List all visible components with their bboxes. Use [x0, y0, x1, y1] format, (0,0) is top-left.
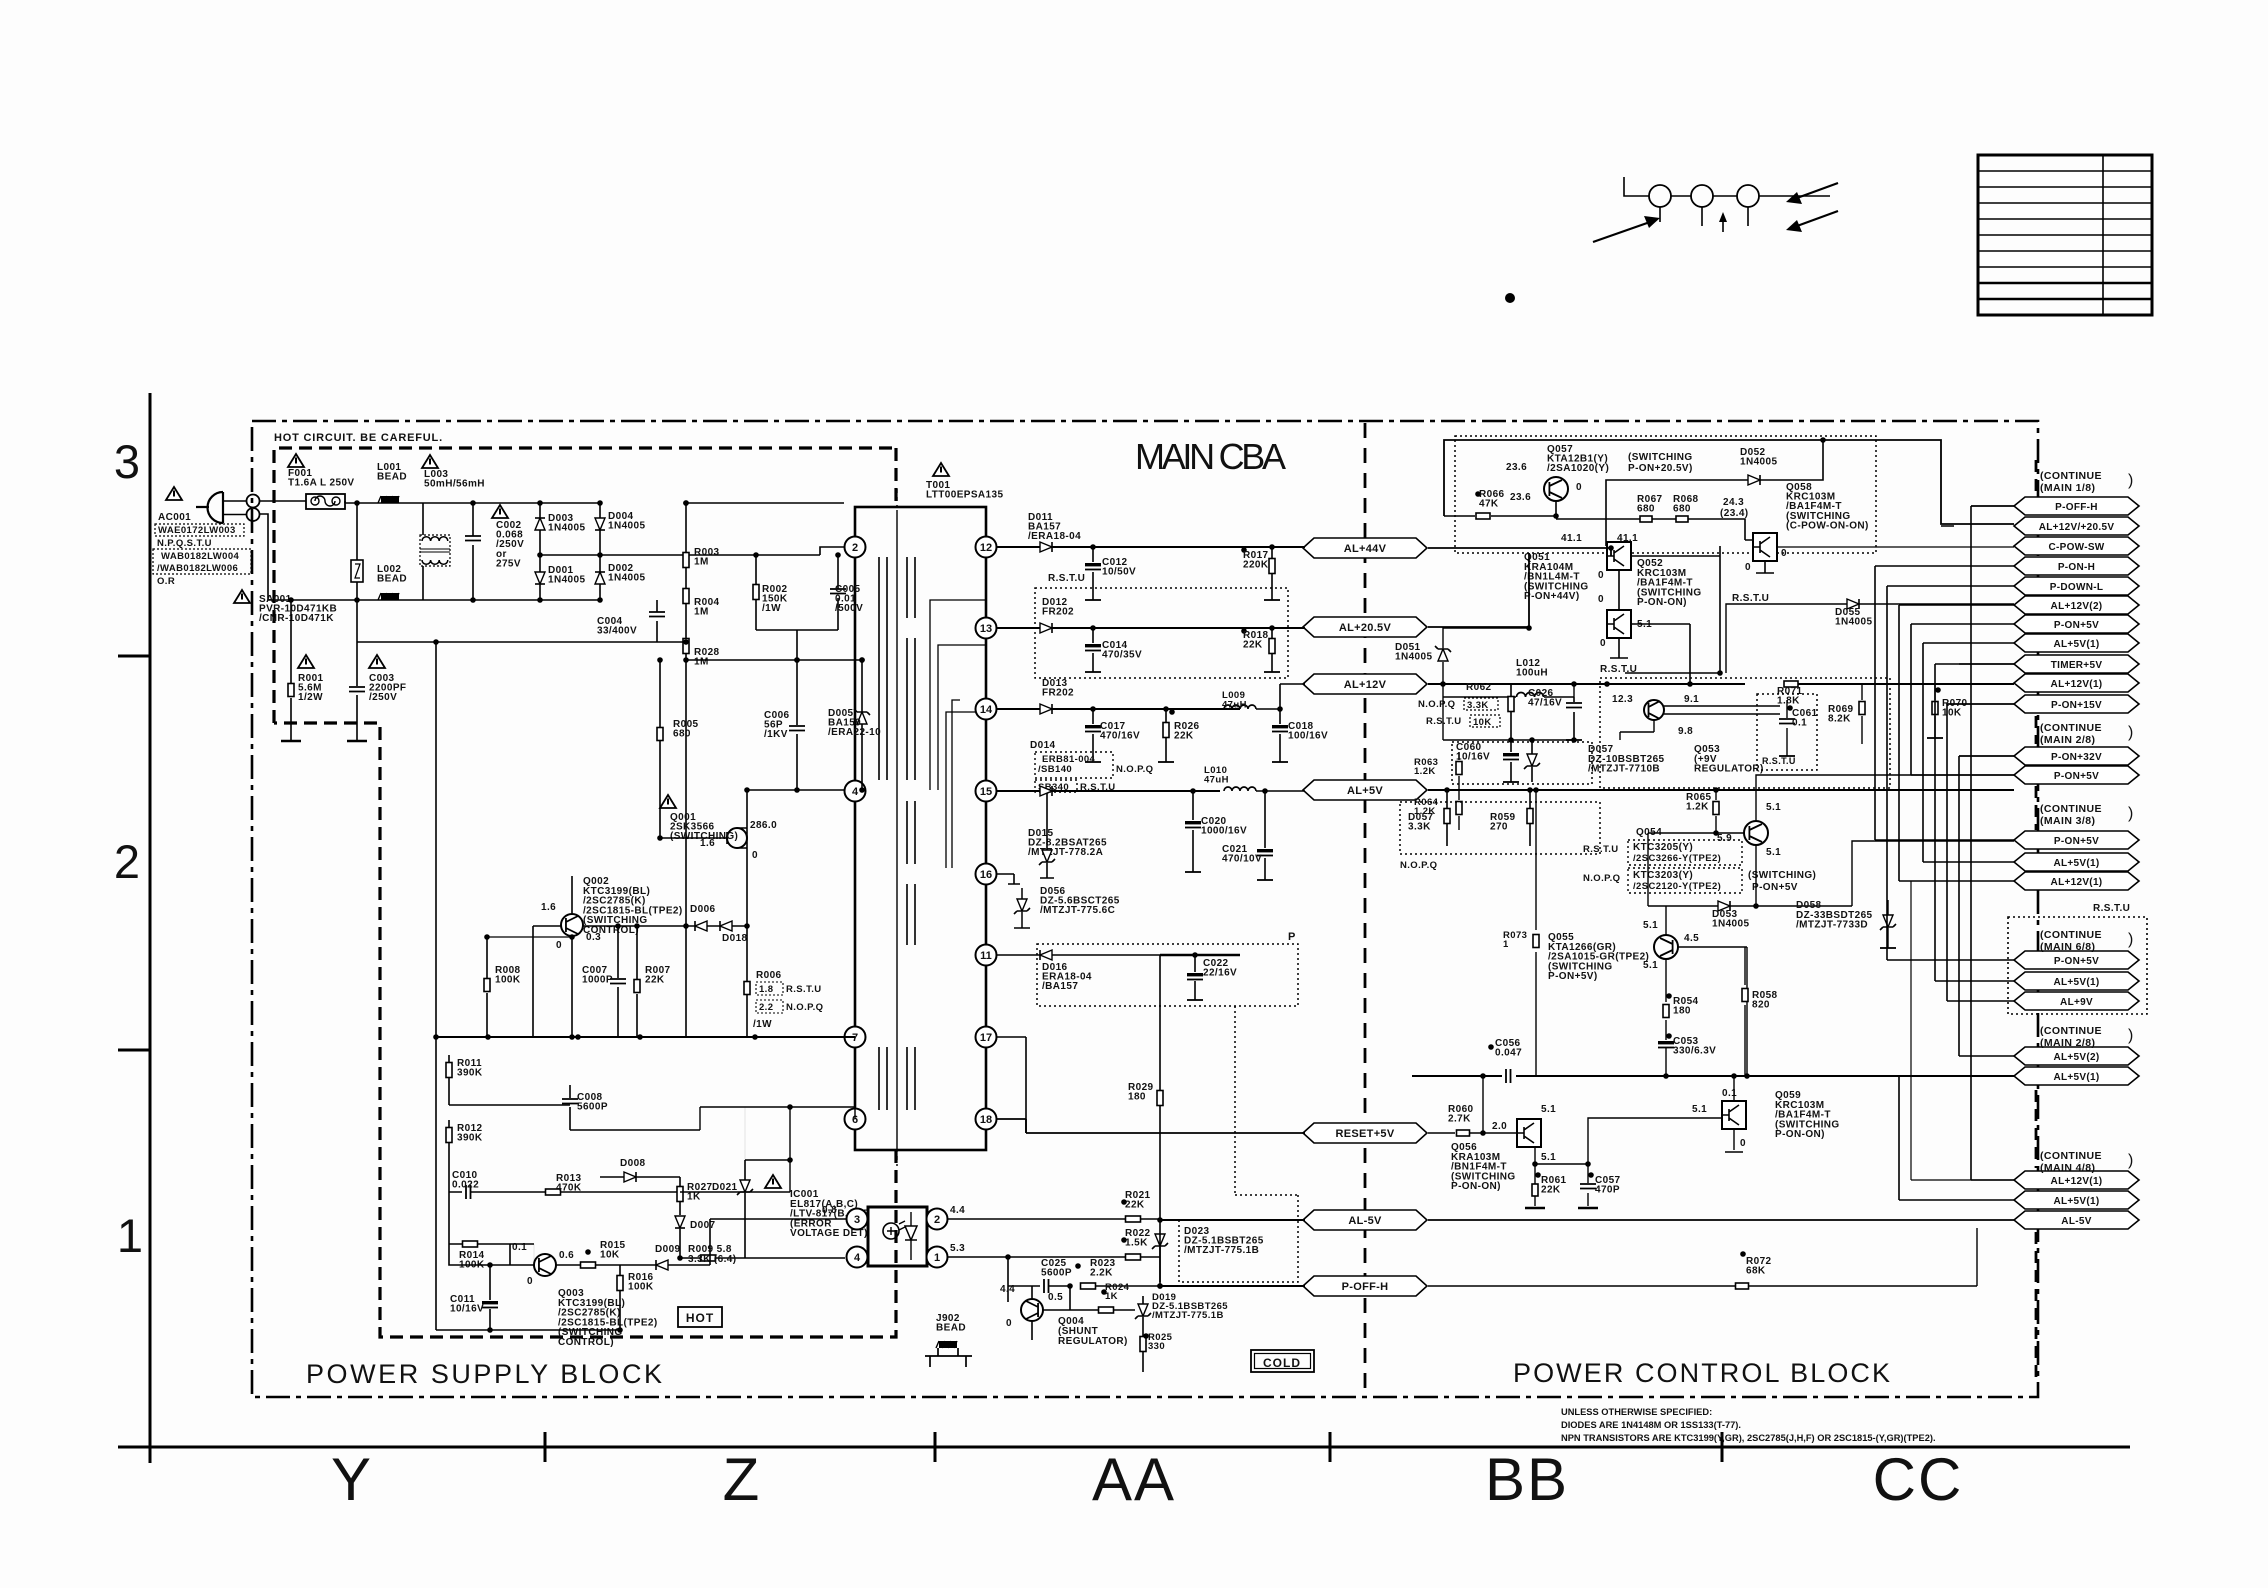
svg-text:820: 820: [1752, 1000, 1770, 1011]
svg-text:2: 2: [934, 1214, 940, 1226]
svg-text:0: 0: [1576, 482, 1582, 493]
wire AL5V1 1200 lead: [1899, 1076, 2014, 1200]
svg-text:/MTZJT-7733D: /MTZJT-7733D: [1796, 920, 1868, 931]
svg-text:/2SC3266-Y(TPE2): /2SC3266-Y(TPE2): [1633, 853, 1721, 864]
svg-text:P-ON+5V: P-ON+5V: [2054, 620, 2099, 631]
COLD label box: [1251, 1350, 1314, 1372]
svg-text:5600P: 5600P: [1041, 1268, 1072, 1279]
net flag RESET+5V mid y1133: [1303, 1123, 1427, 1143]
svg-text:AL+5V: AL+5V: [1347, 785, 1383, 797]
svg-text:KTC3203(Y): KTC3203(Y): [1633, 870, 1693, 881]
svg-text:0: 0: [1745, 562, 1751, 573]
transformer pin 14: [976, 699, 997, 720]
svg-text:AL+5V(1): AL+5V(1): [2053, 977, 2099, 988]
svg-text:(SWITCHING): (SWITCHING): [1748, 870, 1816, 881]
svg-text:AL+12V(1): AL+12V(1): [2051, 877, 2103, 888]
border frame bottom horizontal line: [118, 1446, 2130, 1449]
net flag AL-5V mid y1220: [1303, 1210, 1427, 1230]
svg-text:CC: CC: [1873, 1446, 1964, 1513]
svg-text:/2SA1020(Y): /2SA1020(Y): [1547, 463, 1609, 474]
dash-dot stub below AL-5V: [2035, 1232, 2038, 1384]
svg-text:8.2K: 8.2K: [1828, 714, 1851, 725]
capacitor C017: [1092, 709, 1094, 762]
svg-text:41.1: 41.1: [1561, 533, 1582, 544]
diode D016: [997, 955, 1160, 1000]
resistor R070: [1934, 684, 1936, 738]
svg-text:22/16V: 22/16V: [1203, 968, 1237, 979]
svg-text:R.S.T.U: R.S.T.U: [1762, 756, 1796, 766]
svg-text:4: 4: [852, 786, 859, 798]
wire pin7 bus: [440, 1036, 855, 1038]
svg-text:BB: BB: [1485, 1446, 1569, 1513]
svg-text:41.1: 41.1: [1617, 533, 1638, 544]
transformer pin 13: [976, 618, 997, 639]
svg-text:3.3K: 3.3K: [1408, 822, 1431, 833]
svg-text:47/16V: 47/16V: [1528, 698, 1562, 709]
svg-text:0: 0: [527, 1276, 533, 1287]
diode D009: [620, 1264, 710, 1266]
resistor R004: [683, 589, 689, 604]
inductor L009: [1224, 705, 1256, 709]
resistor R023: [1081, 1283, 1096, 1289]
frame bottom tick Z/AA: [934, 1432, 937, 1462]
transformer pin 15: [976, 781, 997, 802]
svg-text:C-POW-SW: C-POW-SW: [2048, 542, 2104, 553]
svg-text:5.1: 5.1: [1766, 847, 1781, 858]
svg-text:47uH: 47uH: [1222, 700, 1247, 711]
svg-text:AL+5V(1): AL+5V(1): [2053, 639, 2099, 650]
zener D057b: [1527, 754, 1537, 766]
dotted box continue main 6/8: [2008, 917, 2147, 1014]
wire hot gnd bus y1037: [436, 1036, 855, 1038]
zener D058: [1883, 915, 1893, 927]
resistor R005: [659, 660, 661, 838]
svg-text:/ERA22-10: /ERA22-10: [828, 727, 881, 738]
resistor R054: [1665, 1000, 1667, 1040]
svg-text:5.9: 5.9: [1717, 833, 1732, 844]
svg-text:): ): [2128, 1027, 2133, 1044]
resistor R016: [619, 1265, 621, 1330]
frame bottom tick BB/CC: [1721, 1432, 1724, 1462]
svg-text:/2SC2120-Y(TPE2): /2SC2120-Y(TPE2): [1633, 881, 1721, 892]
frame bottom tick AA/BB: [1329, 1432, 1332, 1462]
wire q003 bottom bus: [436, 1329, 620, 1331]
net flag AL+5V mid y790: [1303, 780, 1427, 800]
capacitor C020: [1192, 791, 1194, 872]
transformer pin 12: [976, 537, 997, 558]
svg-text:0: 0: [556, 940, 562, 951]
dotted box D057-R059: [1400, 802, 1600, 854]
svg-text:0.1: 0.1: [1792, 718, 1807, 729]
svg-text:P-ON+15V: P-ON+15V: [2051, 700, 2102, 711]
svg-text:P-OFF-H: P-OFF-H: [2055, 502, 2098, 513]
svg-text:AL+12V(2): AL+12V(2): [2051, 601, 2103, 612]
resistor R026: [1165, 709, 1167, 762]
svg-text:10K: 10K: [600, 1250, 620, 1261]
svg-text:22K: 22K: [1174, 731, 1194, 742]
svg-text:D006: D006: [690, 904, 716, 915]
transistor Q003: [534, 1254, 556, 1276]
resistor R011: [448, 1055, 450, 1105]
diode D051: [1438, 649, 1448, 661]
capacitor C010: [449, 1191, 520, 1193]
wire pin6 row: [570, 1107, 855, 1130]
svg-text:15: 15: [980, 786, 992, 798]
resistor R071: [1784, 681, 1798, 687]
capacitor C021: [1264, 791, 1266, 880]
capacitor C018: [1279, 709, 1281, 762]
svg-text:AL+20.5V: AL+20.5V: [1339, 622, 1392, 634]
svg-text:AL+9V: AL+9V: [2060, 997, 2093, 1008]
svg-text:R.S.T.U: R.S.T.U: [1583, 844, 1619, 855]
net flag AL+5V(1) y1076: [2014, 1067, 2139, 1085]
svg-text:1M: 1M: [694, 607, 709, 618]
resistor R068: [1688, 519, 1745, 540]
dash-dot stub above P-OFF-H: [2035, 460, 2038, 496]
svg-text:/1W: /1W: [753, 1019, 772, 1030]
svg-text:1M: 1M: [694, 657, 709, 668]
svg-text:/WAB0182LW006: /WAB0182LW006: [157, 563, 238, 574]
svg-text:1.6: 1.6: [700, 838, 715, 849]
wire D055 AL+12V(2): [1726, 604, 2014, 673]
svg-text:5600P: 5600P: [577, 1102, 608, 1113]
svg-text:N.O.P.Q: N.O.P.Q: [1418, 699, 1455, 710]
svg-text:P-ON-ON): P-ON-ON): [1451, 1181, 1501, 1192]
svg-text:1.8K: 1.8K: [1777, 696, 1800, 707]
svg-text:0: 0: [752, 850, 758, 861]
wire mid rail to pin2: [686, 547, 844, 555]
svg-text:10/16V: 10/16V: [450, 1304, 484, 1315]
net flag P-ON+5V y624: [2014, 615, 2139, 633]
capacitor C006: [796, 660, 798, 790]
dash-dot stub above AL+12V(1) 1180: [2035, 1090, 2038, 1168]
svg-text:P-ON+5V: P-ON+5V: [2054, 836, 2099, 847]
svg-text:/MTZJT-775.6C: /MTZJT-775.6C: [1040, 905, 1115, 916]
svg-text:POWER SUPPLY BLOCK: POWER SUPPLY BLOCK: [306, 1359, 668, 1389]
svg-text:1N4005: 1N4005: [548, 523, 585, 534]
net flag AL+12V mid y684: [1303, 674, 1427, 694]
svg-text:AL+5V(1): AL+5V(1): [2053, 1072, 2099, 1083]
net flag AL+12V(1) y1180: [2014, 1171, 2139, 1189]
diode D002: [595, 572, 605, 584]
svg-text:R.S.T.U: R.S.T.U: [786, 984, 822, 995]
diode D001: [535, 572, 545, 584]
fuse F001: [306, 494, 345, 509]
svg-text:P-ON-ON): P-ON-ON): [1637, 597, 1687, 608]
svg-text:16: 16: [980, 869, 992, 881]
svg-text:BEAD: BEAD: [936, 1323, 966, 1334]
svg-text:4: 4: [854, 1252, 861, 1264]
svg-text:HOT CIRCUIT. BE CAREFUL.: HOT CIRCUIT. BE CAREFUL.: [274, 432, 443, 444]
net flag AL+5V(2) y1056: [2014, 1047, 2139, 1065]
wire r013 r014 node: [533, 1244, 535, 1265]
svg-text:12.3: 12.3: [1612, 694, 1633, 705]
svg-text:(MAIN 6/8): (MAIN 6/8): [2040, 941, 2095, 953]
resistor R017: [1271, 547, 1273, 600]
dotted box Q057 region: [1455, 436, 1876, 553]
svg-text:1: 1: [1503, 939, 1509, 950]
svg-text:/CNR-10D471K: /CNR-10D471K: [259, 613, 334, 624]
svg-text:D014: D014: [1030, 740, 1056, 751]
svg-text:DIODES ARE 1N4148M OR 1SS133(T: DIODES ARE 1N4148M OR 1SS133(T-77).: [1561, 1420, 1741, 1430]
svg-text:1K: 1K: [687, 1192, 701, 1203]
svg-text:FR202: FR202: [1042, 607, 1074, 618]
capacitor C003: [356, 600, 358, 741]
svg-text:680: 680: [1673, 504, 1691, 515]
svg-text:1.6: 1.6: [541, 902, 556, 913]
svg-text:0.5: 0.5: [1048, 1292, 1063, 1303]
diode D021 warn: [740, 1180, 750, 1192]
svg-text:0: 0: [1006, 1318, 1012, 1329]
svg-text:KTC3205(Y): KTC3205(Y): [1633, 842, 1693, 853]
net flag AL+5V(1) y643: [2014, 634, 2139, 652]
svg-text:/ERA18-04: /ERA18-04: [1028, 531, 1081, 542]
svg-text:D009: D009: [655, 1244, 681, 1255]
svg-text:P-ON-H: P-ON-H: [2058, 562, 2095, 573]
wire C-POW-SW lead: [1777, 546, 2014, 548]
dotted vertical P net: [1235, 1006, 1298, 1218]
resistor D057 3.3K: [1446, 790, 1448, 846]
svg-text:COLD: COLD: [1263, 1356, 1301, 1370]
wire opto pin3 line: [710, 1219, 847, 1265]
capacitor C005: [837, 555, 839, 630]
svg-text:P-ON+5V: P-ON+5V: [1752, 882, 1798, 893]
svg-text:1N4005: 1N4005: [548, 575, 585, 586]
wire q001 drain: [747, 790, 844, 828]
wire pin18 to reset: [997, 1119, 1305, 1133]
wire y1105 bus: [449, 1085, 570, 1130]
capacitor C014: [1092, 628, 1094, 672]
net flag AL+9V y1001: [2014, 992, 2139, 1010]
net flag TIMER+5V y664: [2014, 655, 2139, 673]
svg-text:1: 1: [117, 1209, 143, 1262]
svg-text:): ): [2128, 1152, 2133, 1169]
transistor Q002: [561, 914, 583, 936]
svg-text:Y: Y: [331, 1446, 373, 1513]
frame bottom tick Y/Z: [544, 1432, 547, 1462]
capacitor C060: [1510, 740, 1512, 782]
svg-text:14: 14: [980, 704, 993, 716]
diode D012: [997, 627, 1305, 629]
svg-text:680: 680: [1637, 504, 1655, 515]
svg-text:18: 18: [980, 1114, 992, 1126]
svg-text:1000P: 1000P: [582, 975, 613, 986]
svg-text:N.O.P.Q: N.O.P.Q: [786, 1002, 823, 1013]
svg-text:4.4: 4.4: [950, 1205, 965, 1216]
svg-text:180: 180: [1673, 1006, 1691, 1017]
transformer pin 2: [845, 537, 866, 558]
resistor R066: [1444, 515, 1556, 517]
svg-text:(CONTINUE: (CONTINUE: [2040, 1150, 2102, 1162]
capacitor C008: [569, 1085, 571, 1130]
svg-text:AL+12V(1): AL+12V(1): [2051, 1176, 2103, 1187]
svg-text:(SWITCHING: (SWITCHING: [1628, 452, 1693, 463]
net flag C-POW-SW y546: [2014, 537, 2139, 555]
capacitor C002: [472, 503, 474, 600]
svg-text:0.1: 0.1: [1722, 1088, 1737, 1099]
svg-text:R.S.T.U: R.S.T.U: [1600, 664, 1637, 675]
svg-text:0.6: 0.6: [559, 1250, 574, 1261]
transformer pin 17: [976, 1027, 997, 1048]
svg-text:2: 2: [114, 835, 140, 888]
transistor Q059 dtr: [1722, 1101, 1746, 1129]
capacitor C011: [489, 1265, 491, 1330]
dotted box D016: [1037, 944, 1298, 1006]
svg-text:100uH: 100uH: [1516, 668, 1548, 679]
resistor R008: [486, 937, 488, 1037]
varistor SA001: [351, 560, 363, 582]
net flag AL+44V mid y548: [1303, 538, 1427, 558]
svg-text:0: 0: [1598, 594, 1604, 605]
net flag P-ON+5V y775: [2014, 766, 2139, 784]
svg-text:1.8: 1.8: [759, 984, 773, 995]
diode bridge wires: [540, 503, 600, 600]
svg-text:1N4005: 1N4005: [1835, 617, 1872, 628]
svg-text:P-ON+44V): P-ON+44V): [1524, 591, 1580, 602]
svg-text:/MTZJT-778.2A: /MTZJT-778.2A: [1028, 847, 1103, 858]
capacitor C053: [1665, 1048, 1667, 1076]
resistor R028: [683, 639, 689, 654]
svg-text:180: 180: [1128, 1092, 1146, 1103]
resistor R072: [1428, 1228, 1977, 1286]
wire q001 source: [746, 848, 748, 926]
diode D015: [1042, 850, 1052, 862]
resistor R007: [636, 926, 638, 1037]
wire AL5 main: [1428, 789, 2014, 791]
net flag AL+20.5V mid y627: [1303, 617, 1427, 637]
svg-text:O.R: O.R: [157, 576, 175, 587]
svg-text:WAE0172LW003: WAE0172LW003: [158, 525, 236, 536]
svg-text:330/6.3V: 330/6.3V: [1673, 1046, 1716, 1057]
wire P-OFF-H lead: [1941, 506, 2014, 526]
resistor R064: [1458, 790, 1460, 830]
wire pin17 stub: [997, 1037, 1026, 1133]
svg-text:24.3: 24.3: [1723, 497, 1744, 508]
svg-text:): ): [2128, 805, 2133, 822]
svg-text:(MAIN 2/8): (MAIN 2/8): [2040, 1037, 2095, 1049]
svg-text:FR202: FR202: [1042, 688, 1074, 699]
net flag AL+12V/+20.5V y526: [2014, 517, 2139, 535]
svg-text:5.1: 5.1: [1766, 802, 1781, 813]
wire q056 emitter row: [1535, 1118, 1712, 1164]
svg-text:100K: 100K: [495, 975, 521, 986]
net flag P-ON-H y566: [2014, 557, 2139, 575]
svg-text:REGULATOR): REGULATOR): [1694, 764, 1764, 775]
svg-text:10/50V: 10/50V: [1102, 567, 1136, 578]
wire pin11 right: [1160, 954, 1240, 956]
label WAE0172LW003: [155, 524, 244, 536]
svg-text:10K: 10K: [1942, 708, 1962, 719]
frame tick row 3/2: [118, 655, 150, 658]
transformer pin 11: [976, 945, 997, 966]
svg-text:33/400V: 33/400V: [597, 626, 637, 637]
net flag AL+5V(1) y981: [2014, 972, 2139, 990]
svg-text:(CONTINUE: (CONTINUE: [2040, 470, 2102, 482]
resistor R029: [1159, 1000, 1161, 1219]
svg-text:WAB0182LW004: WAB0182LW004: [161, 551, 240, 562]
svg-text:D007: D007: [690, 1220, 716, 1231]
svg-text:47K: 47K: [1479, 499, 1499, 510]
wire AC neutral: [259, 514, 600, 600]
svg-text:50mH/56mH: 50mH/56mH: [424, 479, 485, 490]
svg-text:22K: 22K: [645, 975, 665, 986]
zener D019: [1138, 1304, 1148, 1316]
capacitor C022: [1194, 955, 1196, 1000]
svg-text:3.3K (6.4): 3.3K (6.4): [688, 1254, 736, 1265]
capacitor C057: [1587, 1164, 1589, 1206]
svg-text:1N4005: 1N4005: [1712, 919, 1749, 930]
inductor L003 line filter: [422, 455, 438, 468]
svg-text:(MAIN 1/8): (MAIN 1/8): [2040, 482, 2095, 494]
svg-text:23.6: 23.6: [1510, 492, 1531, 503]
wire al20 up: [1428, 553, 1529, 627]
resistor R067: [1556, 518, 1676, 520]
net flag AL+12V(1) y881: [2014, 872, 2139, 890]
svg-text:R.S.T.U: R.S.T.U: [1732, 593, 1769, 604]
diode D003: [535, 518, 545, 530]
resistor R006: [746, 926, 748, 1037]
svg-text:5.1: 5.1: [1643, 920, 1658, 931]
bullet dot: [1505, 293, 1515, 303]
svg-text:/250V: /250V: [369, 692, 397, 703]
svg-text:0: 0: [1781, 548, 1787, 559]
svg-text:470K: 470K: [556, 1183, 582, 1194]
svg-text:T1.6A L 250V: T1.6A L 250V: [288, 478, 355, 489]
svg-text:D008: D008: [620, 1158, 646, 1169]
wire q001 gate: [660, 837, 727, 839]
svg-text:2.2K: 2.2K: [1090, 1268, 1113, 1279]
svg-text:68K: 68K: [1746, 1266, 1766, 1277]
svg-text:AL+5V(1): AL+5V(1): [2053, 858, 2099, 869]
svg-text:3: 3: [114, 435, 140, 488]
svg-text:470/16V: 470/16V: [1100, 731, 1140, 742]
wire pin6 to ic001: [680, 1107, 790, 1192]
svg-text:470/35V: 470/35V: [1102, 650, 1142, 661]
transistor Q057: [1544, 477, 1568, 501]
resistor R063: [1458, 752, 1460, 790]
diode D013: [997, 708, 1240, 710]
frame tick row 2/1: [118, 1049, 150, 1052]
resistor R014: [449, 1243, 510, 1245]
diode D005: [861, 660, 863, 790]
label WAB0182LW004/6: [153, 549, 251, 574]
svg-text:3: 3: [854, 1214, 860, 1226]
transformer pin 18: [976, 1109, 997, 1130]
svg-text:100K: 100K: [628, 1282, 654, 1293]
wire P-ON32 lead: [1959, 755, 2014, 757]
transformer pin 7: [845, 1027, 866, 1048]
svg-text:286.0: 286.0: [750, 820, 777, 831]
resistor R065: [1715, 790, 1717, 833]
svg-text:P: P: [1288, 931, 1296, 943]
svg-text:470P: 470P: [1595, 1185, 1620, 1196]
border frame left vertical line: [149, 393, 152, 1463]
svg-text:AL-5V: AL-5V: [1348, 1215, 1382, 1227]
svg-text:1N4005: 1N4005: [1740, 457, 1777, 468]
capacitor C056: [1506, 1069, 1511, 1083]
inductor L002 bead: [381, 593, 399, 600]
resistor R073: [1535, 790, 1537, 1076]
right wire bundle: [1874, 566, 1876, 840]
svg-text:23.6: 23.6: [1506, 462, 1527, 473]
svg-text:4.4: 4.4: [1000, 1284, 1015, 1295]
svg-text:AL+5V(2): AL+5V(2): [2053, 1052, 2099, 1063]
svg-text:11: 11: [980, 950, 992, 962]
svg-text:9.1: 9.1: [1684, 694, 1699, 705]
svg-text:1M: 1M: [694, 557, 709, 568]
resistor R015: [556, 1264, 620, 1266]
svg-text:P-OFF-H: P-OFF-H: [1342, 1281, 1389, 1293]
